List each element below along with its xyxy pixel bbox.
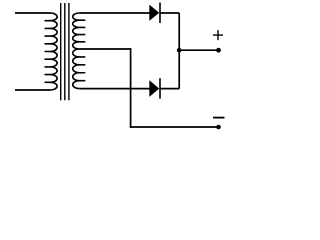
transformer T1 core line 1: [60, 3, 62, 100]
diode D2 triangle: [149, 80, 159, 97]
wire center tap vertical drop (crosses D2 anode wire, no junction): [130, 48, 132, 128]
transformer T1 secondary lower winding: [73, 49, 86, 89]
transformer T1 primary bottom lead wire: [15, 89, 51, 91]
node minus output terminal dot: [216, 125, 221, 130]
wire diode D2 cathode to output vertical: [160, 88, 179, 90]
label minus sign: [213, 117, 225, 119]
node plus output terminal dot: [216, 48, 221, 53]
wire diode D1 cathode to output vertical: [160, 12, 179, 14]
wire secondary top lead to diode D1 anode: [79, 12, 150, 14]
wire bottom run to minus terminal: [130, 126, 219, 128]
transformer T1 secondary upper winding: [73, 13, 86, 49]
wire secondary bottom lead to diode D2 anode: [79, 88, 150, 90]
transformer T1 core line 2: [64, 3, 66, 100]
transformer T1 core line 3: [68, 3, 70, 100]
wire center tap horizontal lead: [79, 48, 131, 50]
node junction dot on output vertical: [177, 48, 182, 53]
diode D2 cathode bar: [159, 78, 161, 98]
diode D1 triangle: [149, 5, 159, 21]
wire output node to plus terminal: [179, 49, 218, 51]
wire output vertical joining D1 and D2 cathodes: [178, 13, 180, 89]
label plus sign: [213, 30, 223, 40]
transformer T1 primary top lead wire: [15, 12, 51, 14]
diode D1 cathode bar: [159, 3, 161, 23]
transformer T1 primary winding: [45, 13, 58, 90]
